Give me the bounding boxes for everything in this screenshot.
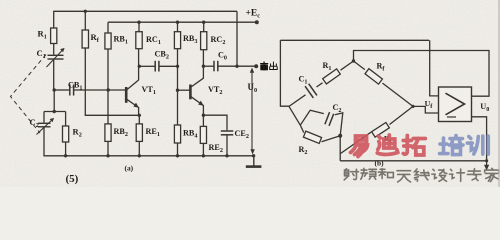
wire CB1 node to C2R2 loop	[53, 90, 55, 112]
transistor VT1	[126, 80, 156, 108]
resistor RB1	[105, 33, 128, 49]
wire C0 left lead	[203, 65, 213, 67]
wire C0 to output	[218, 65, 256, 67]
wire RB2 bottom lead	[107, 142, 109, 156]
node bridge loop right corner	[338, 134, 342, 138]
wire RB4 bottom lead	[177, 143, 179, 156]
watermark 拓	[403, 136, 425, 156]
wire left vertex to loop	[289, 106, 300, 125]
node CB2 left junction	[138, 65, 141, 68]
watermark 频	[361, 168, 377, 179]
svg-text:(5): (5)	[66, 173, 79, 185]
wire bridge arm lower-right (segments)	[341, 106, 414, 153]
ground symbol	[246, 156, 262, 167]
caption (b)	[375, 159, 385, 168]
node RB4 bottom junction	[176, 154, 179, 157]
watermark 天	[397, 171, 411, 182]
node RC1 top junction	[137, 21, 140, 24]
watermark 线	[414, 169, 429, 181]
wire R2 bottom lead	[65, 142, 67, 156]
wire VT1 base	[74, 89, 126, 91]
wire R1 to C1	[53, 44, 55, 55]
node RB1/RB2 base junction	[107, 88, 110, 91]
wire Rf to emitter node	[85, 48, 139, 115]
label Uf	[425, 99, 434, 110]
wire power rail to RC1	[138, 22, 140, 32]
capacitor C2	[325, 103, 342, 126]
ground arrow	[484, 161, 489, 171]
wire C1 to CB1 node	[53, 60, 55, 91]
wire bottom rail	[43, 155, 253, 157]
node VT2 emitter junction	[202, 114, 205, 117]
wire top rail (output feedback rail)	[53, 10, 237, 12]
node VT2 base junction	[176, 89, 179, 92]
node RE2 bottom junction	[202, 154, 205, 157]
wire bridge arm upper-right (segments)	[354, 61, 414, 106]
wire RB4 top lead	[177, 90, 179, 125]
output terminal node	[254, 64, 258, 68]
wire power rail to RB1	[107, 22, 109, 33]
wire C2 bottom lead	[43, 127, 45, 156]
node Rf top junction	[84, 10, 87, 13]
wire bridge arm upper-left (segments)	[289, 61, 354, 106]
wire RE1 bottom lead	[138, 142, 140, 156]
wire CE2 bottom lead	[226, 135, 228, 156]
resistor Rf	[82, 30, 100, 48]
op-amp U (amplifier block)	[439, 87, 472, 122]
wire C2 branch	[300, 110, 343, 136]
wire CB2 right lead	[159, 65, 178, 67]
wire amp lower input	[413, 106, 439, 113]
capacitor C2 (variable)	[30, 117, 55, 135]
svg-text:(a): (a)	[125, 164, 134, 173]
wire +Ec power rail	[108, 21, 257, 23]
watermark 训	[467, 136, 488, 154]
node feedback output junction	[235, 65, 238, 68]
wire VT2 collector	[202, 50, 204, 79]
caption (5)	[66, 173, 79, 185]
watermark 计	[449, 169, 464, 181]
watermark 培	[440, 136, 464, 155]
node RB2 bottom junction	[106, 154, 109, 157]
wire amp output upper (feedback)	[354, 51, 490, 97]
wire R2 top lead	[65, 112, 67, 127]
wire power rail to RB3	[177, 22, 179, 32]
wire RE2 bottom lead	[202, 143, 204, 155]
wire RB2 top lead	[107, 90, 109, 124]
power terminal +Ec	[246, 9, 261, 25]
wire bottom return line	[340, 160, 486, 162]
resistor R1	[38, 28, 57, 44]
node C0 collector junction	[202, 65, 205, 68]
wire VT2 emitter lead	[202, 105, 204, 115]
node RE1 bottom junction	[138, 154, 141, 157]
wire left side	[280, 40, 289, 106]
node ground junction	[252, 154, 255, 157]
wire top rail (to amp input)	[280, 39, 429, 41]
node RC2 top junction	[202, 21, 205, 24]
wire CE2 top lead	[203, 115, 227, 130]
node bottom return junction	[485, 159, 488, 162]
watermark 家	[485, 168, 499, 181]
wire VT2 base	[178, 89, 190, 91]
wire amp input drop	[430, 40, 439, 96]
wire CB2 left lead	[139, 65, 155, 67]
wire RE2 top lead	[202, 115, 204, 126]
node bridge top vertex	[352, 59, 355, 62]
wire RE1 top lead	[138, 115, 140, 124]
node bridge right vertex	[411, 105, 414, 108]
resistor R2	[299, 131, 322, 156]
wire amp output lower	[472, 117, 487, 161]
transistor VT2	[190, 78, 222, 106]
wire RB3 bottom lead	[177, 49, 179, 90]
wire loop corner to bottom	[339, 136, 341, 161]
resistor Rf	[365, 62, 385, 85]
resistor R2	[63, 126, 82, 142]
capacitor C0	[214, 51, 227, 72]
watermark 专	[467, 169, 481, 181]
node RB3 top junction	[176, 21, 179, 24]
capacitor C1 (variable)	[37, 48, 65, 67]
scan edge line	[498, 0, 500, 187]
svg-text:(b): (b)	[375, 159, 385, 168]
dashed gang line	[11, 55, 47, 134]
label U0 output	[480, 102, 489, 113]
capacitor CB1	[68, 81, 82, 96]
wire CB1 left lead	[54, 89, 70, 91]
wire top rail right drop	[236, 11, 238, 66]
resistor R1	[323, 61, 341, 84]
capacitor CE2	[221, 129, 249, 140]
resistor RB2	[105, 124, 128, 141]
voltage arrow U0	[248, 68, 258, 155]
resistor RB4	[174, 125, 197, 143]
resistor RB3	[174, 32, 197, 49]
watermark 设	[432, 169, 447, 181]
capacitor CB2	[155, 50, 169, 72]
resistor Rt	[372, 122, 393, 145]
node R2 bottom junction	[64, 154, 67, 157]
caption (a)	[125, 164, 134, 173]
wire VT1 emitter lead	[138, 107, 140, 115]
wire R1 top lead	[53, 11, 55, 28]
wire VT1 collector	[138, 49, 140, 81]
node VT1 emitter junction	[138, 114, 141, 117]
watermark 和	[378, 169, 393, 179]
node CE2 bottom junction	[225, 154, 228, 157]
wire RB1 bottom lead	[107, 49, 109, 90]
wire R2 branch	[300, 125, 340, 142]
node CB1 left junction	[53, 88, 56, 91]
watermark 射	[344, 169, 358, 180]
watermark 迪	[377, 135, 398, 154]
wire C2 top lead	[43, 112, 45, 123]
label 出 (output)	[270, 62, 277, 70]
resistor RC2	[201, 32, 226, 50]
resistor RE1	[136, 124, 160, 141]
capacitor C1	[299, 75, 317, 98]
wire C2R2 loop top	[44, 111, 66, 113]
node C2R2 loop top junction	[53, 110, 56, 113]
wire Rf top lead	[84, 11, 86, 30]
watermark 易	[351, 136, 368, 157]
label 输 (output)	[261, 62, 268, 70]
resistor RC1	[136, 32, 161, 49]
node RB3/RB4 CB2 junction	[176, 65, 179, 68]
wire power rail to RC2	[203, 22, 205, 32]
resistor RE2	[200, 126, 223, 154]
